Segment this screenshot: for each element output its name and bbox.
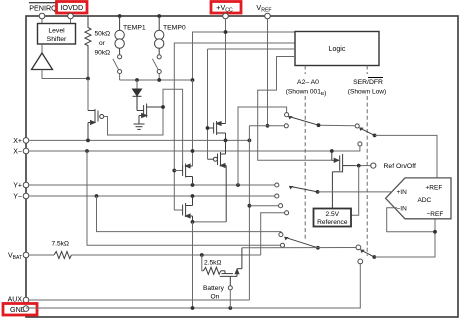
wire M6/M4 source tie: [193, 221, 227, 223]
switch contact S2 left: [355, 124, 359, 128]
svg-text:−REF: −REF: [427, 211, 444, 218]
diode D1: [133, 89, 142, 111]
block ADC (pentagon): [386, 178, 451, 219]
wire TEMP1 switch to rail: [119, 74, 121, 80]
svg-text:50kΩ: 50kΩ: [95, 31, 111, 38]
wire X+/AUX bus vertical: [248, 126, 250, 300]
svg-text:7.5kΩ: 7.5kΩ: [52, 241, 69, 248]
terminal Ref On/Off: [371, 163, 376, 168]
junction X+ branch: [248, 139, 252, 143]
svg-text:Y+: Y+: [13, 183, 22, 190]
wire +IN line to ADC: [318, 191, 396, 193]
wire +REF line to ADC: [375, 135, 437, 178]
pin terminal PENIRQ: [39, 13, 45, 19]
junction gnd M6: [191, 306, 195, 310]
junction mux contact tee: [248, 204, 252, 208]
svg-text:2.5kΩ: 2.5kΩ: [204, 260, 221, 267]
wire Q1 gate loop: [104, 89, 183, 165]
junction M6 source to gnd: [191, 220, 195, 224]
transistor M6: [183, 196, 193, 222]
pin GND label in red callout box: [3, 304, 37, 316]
svg-text:Y−: Y−: [13, 194, 22, 201]
switch S_T0 contact top: [157, 55, 161, 59]
wire VBAT line to riser: [71, 254, 260, 256]
wire gnd riser to contact D: [26, 264, 360, 308]
junction M3 gate: [206, 126, 210, 130]
junction TEMP0 switch on rail: [157, 78, 161, 82]
junction TEMP1 on border: [118, 14, 122, 18]
switch S_T1 contact top: [118, 55, 122, 59]
switch blade -REF mux: [284, 237, 318, 248]
junction Y- M6: [191, 194, 195, 198]
buffer amplifier A1 (triangle): [32, 53, 53, 70]
switch contact VBAT mux: [285, 211, 289, 215]
switch contact A (Y- branch): [279, 233, 283, 237]
dashed control line SER/DFR: [366, 66, 368, 75]
switch contact C: [356, 245, 361, 250]
wire TEMP0 switch to rail: [158, 74, 160, 80]
svg-text:Reference: Reference: [317, 219, 348, 226]
transistor M4 (p-ch bubble): [208, 140, 227, 222]
wire buffer output to node PENB: [42, 70, 88, 79]
switch contact S1 line end: [284, 124, 288, 128]
pin +VCC label in red callout box: [211, 2, 241, 14]
resistor R3 2.5k: [203, 267, 220, 274]
wire level shifter to buffer A1: [41, 44, 43, 53]
junction M5 gate tap: [172, 169, 176, 173]
junction X+ M3/M4: [224, 139, 228, 143]
switch S_T0 blade: [152, 59, 158, 70]
block 2.5V Reference: [314, 209, 352, 227]
junction node PENB: [86, 77, 90, 81]
pin IOVDD label in red callout box: [57, 2, 88, 14]
svg-text:Level: Level: [48, 28, 65, 35]
wire power bus down: [192, 80, 194, 166]
wire ref line left segment: [249, 125, 284, 127]
pin terminal IOVDD: [68, 13, 74, 19]
svg-text:PENIRQ: PENIRQ: [29, 4, 57, 13]
battery-on substrate contact: [228, 286, 232, 290]
svg-text:ADC: ADC: [418, 197, 432, 204]
junction 2.5k tap: [200, 253, 204, 257]
current source TEMP1: [115, 16, 124, 54]
junction rail power: [191, 78, 195, 82]
transistor M3 (X+ pullup): [208, 121, 226, 140]
wire AUX line: [29, 299, 250, 301]
svg-text:A2– A0: A2– A0: [297, 79, 319, 86]
svg-text:Shifter: Shifter: [47, 36, 67, 43]
switch contact D (gnd): [358, 259, 363, 264]
wire Y- line: [29, 195, 275, 197]
pin terminal VREF: [265, 13, 271, 19]
svg-text:X+: X+: [13, 138, 22, 145]
junction X- M5: [191, 149, 195, 153]
switch blade S2: [359, 127, 375, 135]
wire mux contact line: [249, 205, 278, 207]
junction Q2 drain on gate loop: [161, 105, 165, 109]
switch contact Y+ mux: [275, 183, 279, 187]
wire ref line right segment: [319, 124, 355, 127]
junction Y+ M5: [191, 183, 195, 187]
junction TEMP0 on border: [157, 14, 161, 18]
svg-text:Logic: Logic: [329, 46, 346, 53]
wire temp rail: [120, 79, 193, 81]
wire battery source to gnd: [229, 290, 231, 308]
switch contact Y- mux: [275, 194, 279, 198]
wire VREF terminal down: [267, 19, 269, 126]
switch contact B (X- branch): [280, 243, 284, 247]
label Battery On: [203, 285, 225, 301]
switch contact X+ mux: [279, 204, 283, 208]
junction blade S1 on ref line: [317, 123, 321, 127]
svg-text:TEMP1: TEMP1: [123, 25, 146, 32]
resistor R1 50k/90k pullup: [85, 16, 91, 79]
wire logic input C jog to ref enable gate: [258, 57, 332, 161]
transistor Q1 (p-ch, gate bubble): [88, 109, 104, 140]
wire logic input A (from M3/M4 gate bus): [208, 48, 296, 50]
svg-text:2.5V: 2.5V: [326, 211, 340, 218]
junction vcc-logic branch: [224, 30, 228, 34]
wire logic power line: [193, 32, 296, 80]
transistor M8 battery-on switch: [220, 248, 242, 286]
pin terminal VBAT: [23, 252, 29, 258]
svg-text:X−: X−: [13, 149, 22, 156]
switch S_T1 blade: [113, 59, 119, 70]
junction -IN on -REF vertical: [433, 230, 437, 234]
svg-text:−IN: −IN: [397, 206, 408, 213]
junction Y+ riser: [236, 183, 240, 187]
svg-text:+REF: +REF: [426, 185, 443, 192]
wire -REF to ADC: [374, 219, 435, 257]
pin terminal AUX: [23, 297, 29, 303]
junction Y- branch: [95, 194, 99, 198]
switch contact S2 lower (X- riser): [358, 142, 362, 146]
junction VREF on ref line: [266, 124, 270, 128]
junction X- to M7 gate: [330, 149, 334, 153]
svg-text:+IN: +IN: [397, 189, 408, 196]
junction X+ Q1: [86, 139, 90, 143]
switch S_T1 contact bottom: [118, 69, 122, 73]
wire M5 gate branch: [174, 170, 182, 172]
resistor R2 7.5k: [54, 252, 71, 259]
wire Y+ line: [29, 184, 275, 186]
pin terminal X-: [23, 148, 29, 154]
pin terminal +VCC: [223, 13, 229, 19]
svg-text:On: On: [211, 294, 220, 301]
svg-text:IOVDD: IOVDD: [60, 3, 83, 12]
current source TEMP0: [155, 16, 164, 54]
wire -REF select line: [242, 247, 356, 249]
transistor M7 ref enable: [332, 151, 356, 209]
wire rail to diode: [136, 80, 138, 89]
junction +IN blade: [316, 190, 320, 194]
svg-text:SER/DFR: SER/DFR: [353, 79, 383, 86]
junction blade S2 on +REF line: [373, 134, 377, 138]
wire M5/M6 gate bus from logic: [174, 43, 295, 210]
junction diode tap: [135, 78, 139, 82]
wire Y+ riser to top contact: [238, 107, 287, 185]
wire VBAT lead: [29, 254, 54, 256]
dashed control line A2-A0: [304, 66, 306, 75]
switch contact S1 top (Y+): [285, 113, 289, 117]
wire M7 drain to Ref terminal: [356, 165, 371, 167]
wire IOVDD terminal to level shifter: [70, 19, 72, 24]
label SER/DFR with overline: [353, 78, 383, 87]
junction -REF line: [372, 255, 376, 259]
wire M6 source down to gnd rail: [192, 222, 194, 308]
wire -IN loop: [387, 208, 435, 232]
svg-text:Battery: Battery: [203, 285, 225, 292]
pin terminal Y-: [23, 193, 29, 199]
switch blade S1: [288, 116, 318, 125]
wire VBAT riser to mux contact: [261, 213, 285, 255]
wire node PENB down to Q1: [87, 79, 89, 111]
svg-text:or: or: [99, 40, 106, 47]
wire X- branch to -REF contact: [87, 151, 280, 245]
transistor Q2 (penirq driver): [137, 104, 163, 125]
svg-text:TEMP0: TEMP0: [163, 25, 186, 32]
pin terminal Y+: [23, 182, 29, 188]
wire X+ line: [29, 139, 250, 141]
ground symbol: [134, 124, 145, 129]
pin PENIRQ label with overline: [29, 3, 57, 13]
junction gnd battery: [228, 306, 232, 310]
switch blade2 -REF: [360, 250, 374, 258]
wire X- line: [29, 146, 360, 151]
junction X- branch down: [85, 149, 89, 153]
pin terminal X+: [23, 138, 29, 144]
block Level Shifter U2: [38, 24, 76, 45]
wire +VCC terminal down: [225, 19, 227, 124]
svg-text:(Shown Low): (Shown Low): [348, 89, 386, 96]
resistor R1 value label: [95, 31, 111, 57]
switch blade +IN mux: [289, 186, 318, 192]
wire M3/M4 gate bus: [207, 49, 209, 159]
pin terminal GND: [23, 306, 29, 312]
junction ref output: [357, 164, 361, 168]
svg-text:90kΩ: 90kΩ: [95, 50, 111, 57]
switch S_T0 contact bottom: [157, 69, 161, 73]
wire Y- branch to contact A: [97, 196, 281, 232]
svg-text:Ref On/Off: Ref On/Off: [384, 163, 416, 170]
junction -REF blade: [316, 246, 320, 250]
wire PENIRQ terminal to level shifter: [41, 19, 43, 24]
transistor M5: [183, 164, 193, 186]
wire ref output down to reference box: [351, 166, 359, 216]
block Logic U3: [295, 32, 379, 66]
wire tap down to 2.5k: [202, 255, 204, 271]
